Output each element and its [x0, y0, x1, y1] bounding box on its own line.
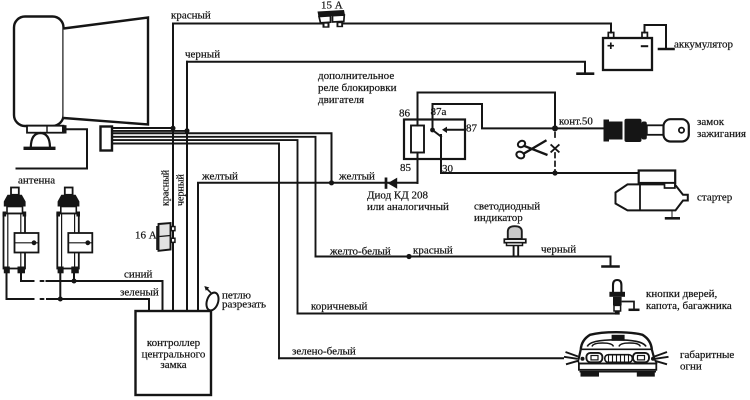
- svg-text:огни: огни: [680, 361, 702, 373]
- svg-text:черный: черный: [541, 244, 576, 256]
- svg-text:аккумулятор: аккумулятор: [674, 39, 733, 51]
- svg-text:замок: замок: [697, 116, 725, 128]
- svg-text:индикатор: индикатор: [474, 212, 523, 224]
- svg-text:красный: красный: [171, 10, 211, 22]
- svg-text:87: 87: [466, 123, 478, 135]
- svg-text:коричневый: коричневый: [311, 301, 368, 313]
- svg-text:85: 85: [400, 162, 412, 174]
- svg-text:реле блокировки: реле блокировки: [318, 82, 397, 94]
- svg-text:красный: красный: [161, 169, 172, 206]
- svg-text:зажигания: зажигания: [697, 128, 746, 140]
- svg-text:капота, багажника: капота, багажника: [646, 300, 732, 312]
- svg-text:дополнительное: дополнительное: [318, 70, 394, 82]
- svg-text:стартер: стартер: [697, 192, 733, 204]
- svg-text:конт.50: конт.50: [559, 116, 593, 128]
- svg-text:разрезать: разрезать: [222, 299, 266, 311]
- svg-text:желто-белый: желто-белый: [329, 246, 391, 258]
- svg-text:контроллер: контроллер: [147, 337, 201, 349]
- svg-text:16 А: 16 А: [135, 230, 157, 242]
- svg-text:светодиодный: светодиодный: [474, 201, 540, 213]
- svg-text:30: 30: [442, 163, 454, 175]
- svg-text:синий: синий: [124, 269, 153, 281]
- svg-text:черный: черный: [185, 49, 220, 61]
- svg-text:зеленый: зеленый: [120, 287, 159, 299]
- svg-text:15 А: 15 А: [321, 0, 343, 12]
- svg-text:или аналогичный: или аналогичный: [367, 201, 449, 213]
- svg-text:87а: 87а: [431, 106, 447, 118]
- svg-text:двигателя: двигателя: [318, 94, 364, 106]
- svg-text:желтый: желтый: [338, 171, 375, 183]
- svg-text:черный: черный: [176, 173, 187, 206]
- svg-text:габаритные: габаритные: [680, 349, 734, 361]
- svg-text:антенна: антенна: [18, 175, 55, 187]
- svg-text:зелено-белый: зелено-белый: [292, 346, 356, 358]
- svg-text:замка: замка: [160, 359, 186, 371]
- svg-text:красный: красный: [413, 245, 453, 257]
- svg-text:Диод КД 208: Диод КД 208: [367, 190, 429, 202]
- svg-text:86: 86: [399, 108, 411, 120]
- svg-text:кнопки дверей,: кнопки дверей,: [646, 288, 717, 300]
- svg-text:желтый: желтый: [201, 171, 238, 183]
